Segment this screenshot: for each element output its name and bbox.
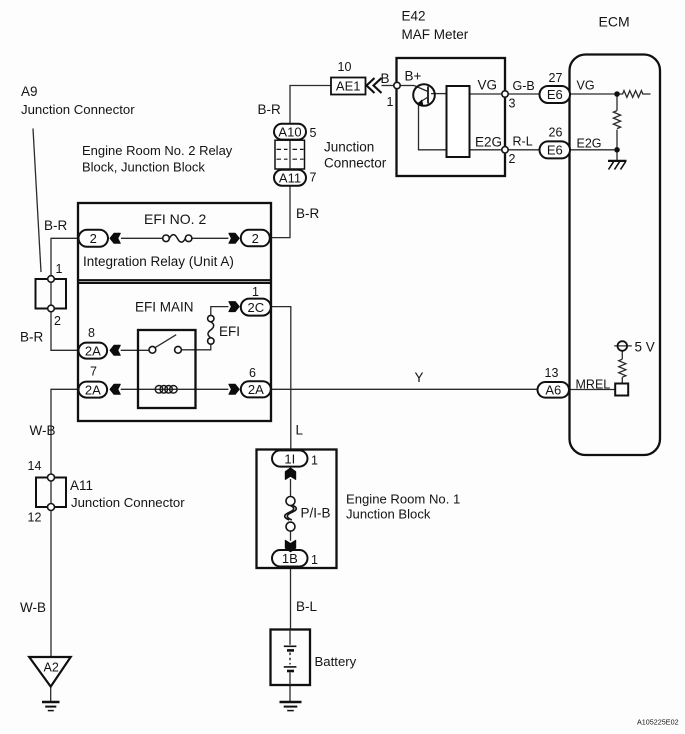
svg-text:2: 2 [90, 231, 97, 246]
svg-text:7: 7 [90, 365, 97, 379]
svg-text:B-R: B-R [296, 206, 320, 221]
svg-text:2: 2 [509, 152, 516, 166]
svg-text:8: 8 [88, 326, 95, 340]
svg-text:1: 1 [387, 95, 394, 109]
svg-text:Junction Connector: Junction Connector [21, 102, 135, 117]
svg-text:E6: E6 [547, 87, 563, 102]
svg-text:B-R: B-R [44, 218, 68, 233]
svg-text:5: 5 [310, 126, 317, 140]
svg-text:2: 2 [252, 231, 259, 246]
svg-text:Block, Junction Block: Block, Junction Block [82, 160, 205, 175]
svg-text:1: 1 [252, 285, 259, 299]
svg-text:E6: E6 [547, 143, 563, 158]
svg-text:EFI NO. 2: EFI NO. 2 [144, 211, 206, 227]
svg-text:Battery: Battery [315, 654, 357, 669]
svg-text:7: 7 [310, 171, 317, 185]
svg-text:A11: A11 [70, 478, 93, 493]
svg-text:12: 12 [28, 511, 42, 525]
svg-text:1: 1 [56, 262, 63, 276]
svg-text:B+: B+ [405, 69, 422, 84]
svg-text:2A: 2A [85, 382, 101, 397]
svg-text:Junction: Junction [324, 140, 374, 155]
svg-text:26: 26 [549, 126, 563, 140]
svg-text:27: 27 [549, 71, 563, 85]
svg-text:G-B: G-B [513, 79, 535, 93]
svg-text:Engine Room No. 2 Relay: Engine Room No. 2 Relay [82, 143, 233, 158]
svg-text:1: 1 [311, 454, 318, 468]
svg-text:MAF Meter: MAF Meter [402, 27, 469, 42]
svg-text:ECM: ECM [599, 14, 630, 30]
svg-text:B-L: B-L [296, 599, 318, 614]
svg-text:A9: A9 [21, 84, 38, 99]
svg-text:B-R: B-R [258, 102, 282, 117]
svg-text:MREL: MREL [576, 378, 611, 392]
svg-text:2: 2 [54, 314, 61, 328]
svg-text:AE1: AE1 [336, 79, 361, 94]
svg-text:1: 1 [311, 553, 318, 567]
svg-text:1B: 1B [282, 551, 298, 566]
svg-text:Integration Relay (Unit A): Integration Relay (Unit A) [83, 254, 234, 269]
svg-text:Junction Connector: Junction Connector [71, 495, 185, 510]
svg-text:A10: A10 [278, 124, 301, 139]
svg-text:3: 3 [509, 97, 516, 111]
svg-text:W-B: W-B [20, 600, 46, 615]
svg-text:W-B: W-B [30, 423, 56, 438]
svg-text:B: B [381, 71, 390, 86]
svg-text:13: 13 [545, 366, 559, 380]
svg-text:Connector: Connector [324, 156, 387, 171]
svg-text:2A: 2A [85, 343, 101, 358]
svg-text:14: 14 [28, 459, 42, 473]
svg-text:E42: E42 [402, 9, 426, 24]
svg-text:Junction Block: Junction Block [346, 507, 431, 522]
svg-text:L: L [296, 423, 304, 438]
svg-text:P/I-B: P/I-B [301, 506, 331, 521]
svg-text:Y: Y [415, 370, 424, 385]
svg-text:A11: A11 [279, 170, 301, 185]
svg-text:5 V: 5 V [635, 340, 655, 355]
svg-text:Engine Room No. 1: Engine Room No. 1 [346, 492, 460, 507]
svg-text:E2G: E2G [475, 135, 502, 150]
svg-text:VG: VG [577, 79, 595, 93]
svg-text:EFI: EFI [219, 324, 240, 339]
svg-text:6: 6 [249, 366, 256, 380]
svg-text:2A: 2A [248, 382, 264, 397]
svg-text:10: 10 [338, 60, 352, 74]
svg-text:E2G: E2G [577, 137, 602, 151]
svg-text:1I: 1I [284, 451, 295, 466]
svg-text:R-L: R-L [513, 135, 533, 149]
svg-text:A6: A6 [545, 383, 561, 398]
svg-text:B-R: B-R [20, 330, 44, 345]
svg-text:2C: 2C [247, 300, 264, 315]
svg-text:A2: A2 [44, 661, 59, 675]
svg-text:VG: VG [478, 78, 498, 93]
svg-text:EFI MAIN: EFI MAIN [135, 300, 194, 315]
svg-text:A105225E02: A105225E02 [637, 718, 679, 727]
